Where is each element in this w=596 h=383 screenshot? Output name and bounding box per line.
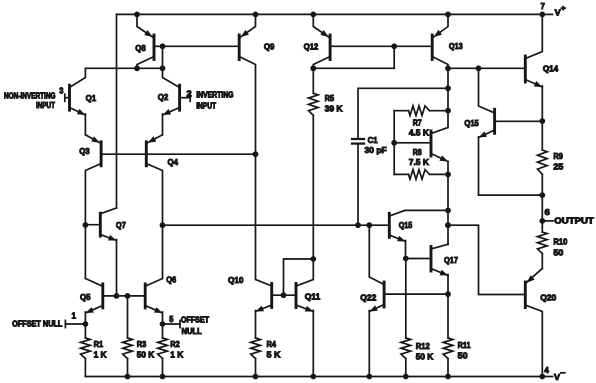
- svg-text:2: 2: [187, 89, 192, 99]
- svg-text:R11: R11: [458, 340, 471, 350]
- svg-text:7.5 K: 7.5 K: [409, 157, 430, 167]
- svg-text:Q22: Q22: [360, 293, 376, 303]
- svg-text:NON-INVERTING: NON-INVERTING: [4, 92, 56, 101]
- svg-text:R8: R8: [413, 147, 422, 157]
- svg-text:Q9: Q9: [264, 42, 275, 52]
- svg-text:R12: R12: [416, 341, 430, 351]
- svg-text:25: 25: [553, 162, 563, 172]
- svg-text:R5: R5: [325, 93, 335, 103]
- svg-text:V: V: [554, 372, 560, 382]
- svg-text:OUTPUT: OUTPUT: [554, 216, 594, 226]
- svg-text:R4: R4: [267, 339, 277, 349]
- svg-text:1 K: 1 K: [170, 350, 184, 360]
- svg-text:Q11: Q11: [305, 292, 321, 302]
- svg-text:Q20: Q20: [540, 293, 556, 303]
- svg-text:Q17: Q17: [444, 255, 458, 265]
- svg-text:5: 5: [169, 314, 173, 324]
- svg-text:5 K: 5 K: [267, 350, 282, 360]
- svg-text:OFFSET NULL: OFFSET NULL: [12, 320, 62, 329]
- svg-text:4: 4: [544, 365, 549, 375]
- svg-text:3: 3: [59, 86, 63, 96]
- svg-text:–: –: [560, 368, 565, 377]
- svg-text:Q3: Q3: [79, 146, 90, 156]
- svg-text:Q14: Q14: [543, 64, 559, 74]
- svg-text:R9: R9: [553, 151, 563, 161]
- svg-text:Q13: Q13: [449, 41, 463, 51]
- svg-text:Q8: Q8: [135, 43, 146, 53]
- svg-text:INPUT: INPUT: [196, 102, 216, 111]
- svg-text:Q6: Q6: [166, 274, 176, 284]
- svg-text:4.5 K: 4.5 K: [409, 128, 430, 138]
- svg-text:Q1: Q1: [86, 93, 97, 103]
- svg-text:R10: R10: [553, 236, 567, 246]
- svg-text:50 K: 50 K: [416, 351, 434, 361]
- svg-text:R2: R2: [170, 339, 180, 349]
- svg-text:30 pF: 30 pF: [365, 145, 387, 155]
- svg-text:R1: R1: [94, 339, 104, 349]
- svg-text:Q15: Q15: [464, 118, 479, 128]
- svg-text:50: 50: [553, 248, 563, 258]
- svg-text:39 K: 39 K: [325, 103, 344, 113]
- svg-text:INPUT: INPUT: [36, 101, 55, 110]
- svg-text:7: 7: [541, 1, 546, 11]
- svg-text:Q2: Q2: [158, 92, 169, 102]
- svg-text:C1: C1: [368, 135, 378, 145]
- svg-text:Q7: Q7: [116, 220, 126, 230]
- svg-text:+: +: [561, 4, 567, 13]
- svg-text:50: 50: [458, 351, 468, 361]
- svg-text:50 K: 50 K: [137, 350, 155, 360]
- svg-text:INVERTING: INVERTING: [196, 91, 233, 100]
- svg-text:Q5: Q5: [80, 292, 91, 302]
- svg-text:6: 6: [545, 207, 551, 217]
- svg-text:Q4: Q4: [168, 157, 179, 167]
- svg-text:Q10: Q10: [228, 275, 244, 285]
- svg-text:NULL: NULL: [182, 327, 202, 336]
- svg-text:R3: R3: [137, 339, 147, 349]
- svg-text:Q12: Q12: [304, 42, 319, 52]
- svg-text:OFFSET: OFFSET: [181, 315, 209, 324]
- svg-text:1 K: 1 K: [94, 350, 108, 360]
- svg-text:Q15: Q15: [399, 220, 413, 230]
- svg-text:R7: R7: [413, 118, 422, 128]
- svg-text:1: 1: [72, 311, 77, 321]
